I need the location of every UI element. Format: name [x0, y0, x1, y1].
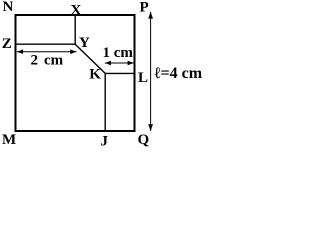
wire K-J vertical [104, 73, 106, 130]
svg-text:J: J [101, 133, 109, 149]
wire K-L horizontal [105, 72, 134, 74]
wire Z-Y horizontal [16, 43, 75, 45]
wire X-Y vertical [74, 15, 76, 44]
square NPQM outline [16, 15, 135, 131]
svg-text:X: X [71, 2, 82, 18]
svg-text:Z: Z [2, 36, 12, 52]
svg-text:N: N [3, 0, 14, 15]
svg-text:L: L [138, 70, 148, 86]
svg-text:K: K [89, 67, 101, 83]
dimension arrow l=4cm vertical [148, 12, 153, 131]
svg-text:P: P [140, 0, 149, 16]
svg-text:Q: Q [138, 132, 150, 148]
wire Y-K diagonal [75, 44, 105, 73]
svg-text:Y: Y [79, 35, 90, 51]
svg-text:1 cm: 1 cm [103, 45, 134, 61]
svg-text:M: M [2, 132, 16, 148]
dimension arrow 2 cm [17, 49, 77, 54]
dimension arrow 1 cm [105, 61, 134, 65]
svg-text:ℓ=4 cm: ℓ=4 cm [155, 65, 203, 82]
svg-text:2 cm: 2 cm [31, 53, 64, 69]
